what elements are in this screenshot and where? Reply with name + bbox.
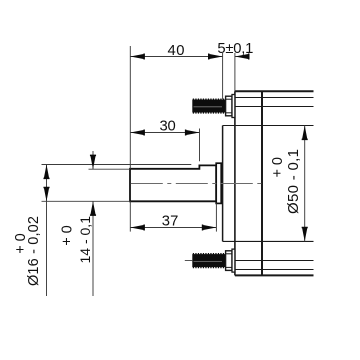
arrow 37 right xyxy=(202,224,217,230)
dim line O50 vertical xyxy=(304,126,306,242)
arrow O16 up xyxy=(43,165,49,180)
svg-text:30: 30 xyxy=(160,119,176,135)
arrow 37 left xyxy=(130,224,145,230)
dim line 40 xyxy=(130,56,222,58)
dim line 14 upper tail xyxy=(92,151,94,169)
stud top: threaded rod xyxy=(192,99,225,113)
stud bottom: washer xyxy=(232,249,235,272)
arrow O16 down xyxy=(43,187,49,202)
dim line 30 xyxy=(130,132,199,134)
dim line 14 lower xyxy=(92,201,94,296)
stud bottom: axis tick xyxy=(185,260,193,262)
arrow 30 left xyxy=(130,129,145,135)
stud bottom: nut facets xyxy=(226,254,232,268)
stud bottom: threaded rod xyxy=(192,254,225,268)
stud top: washer xyxy=(232,95,235,118)
shaft collar xyxy=(216,163,221,203)
body step line lower 1 xyxy=(235,269,314,271)
housing body outline xyxy=(235,91,314,275)
body step line lower 2 xyxy=(235,260,314,262)
arrow 40 left xyxy=(130,53,145,59)
ext line body face top xyxy=(234,53,236,91)
ext line boss face top xyxy=(222,53,224,99)
body top edge xyxy=(235,90,314,92)
arrow 14 up outside xyxy=(90,201,96,216)
arrow 30 right xyxy=(185,129,200,135)
dim line O16 vertical xyxy=(46,165,48,297)
svg-text:Ø50 - 0,1: Ø50 - 0,1 xyxy=(285,149,302,214)
dim line 5 outside tail xyxy=(235,56,249,58)
dim line 37 xyxy=(130,227,216,229)
ext line 37 left xyxy=(129,201,131,231)
dimension thin lines xyxy=(42,46,305,296)
shaft centerline xyxy=(131,183,262,185)
stud bottom: hex nut xyxy=(226,251,232,271)
stud top: nut facets xyxy=(226,99,232,113)
boss front face xyxy=(222,126,224,242)
ext line O16/14 bottom xyxy=(42,200,131,202)
ext line 37 right xyxy=(215,203,217,231)
flange line xyxy=(261,91,263,275)
shaft xyxy=(130,165,216,201)
svg-text:+ 0: + 0 xyxy=(60,225,76,246)
arrowheads xyxy=(43,53,307,241)
ext line O16 top xyxy=(42,164,192,166)
ext line 14 flat xyxy=(89,168,131,170)
body step line upper 2 xyxy=(235,106,314,108)
body left face xyxy=(234,91,236,275)
svg-text:+ 0: + 0 xyxy=(270,157,286,178)
svg-text:40: 40 xyxy=(168,43,185,59)
ext line shaft tip (40/30/37 left) xyxy=(129,46,131,169)
boss bottom line xyxy=(223,240,314,242)
boss top line xyxy=(223,125,314,127)
centering boss O50 xyxy=(223,126,314,242)
ext line 30 right xyxy=(199,129,201,162)
svg-text:5±0,1: 5±0,1 xyxy=(217,41,253,57)
stud top: hex nut xyxy=(226,96,232,116)
body bottom edge xyxy=(235,274,314,276)
svg-text:+ 0: + 0 xyxy=(13,233,29,254)
arrow O50 up xyxy=(302,126,308,141)
body step line upper 1 xyxy=(235,97,314,99)
arrow 14 down outside xyxy=(90,155,96,170)
arrow O50 down xyxy=(302,227,308,242)
arrow 5 right outside xyxy=(235,53,250,59)
arrow 40 right / 5 left xyxy=(208,53,223,59)
svg-text:14 - 0,1: 14 - 0,1 xyxy=(77,216,93,264)
svg-text:37: 37 xyxy=(162,213,179,229)
dimension texts xyxy=(13,41,302,286)
